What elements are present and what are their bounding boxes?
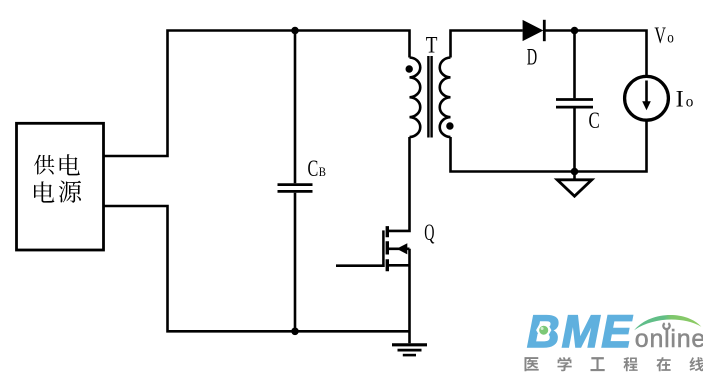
wire: box bottom stub + left vertical lower + bottom rail [104,206,410,331]
wire: secondary top to diode anode [451,31,523,58]
transformer primary polarity dot [406,65,413,72]
svg-text:I: I [676,87,684,112]
MOSFET Q channel bars [386,226,389,271]
wire: diode cathode to top-right corner [544,31,646,78]
svg-text:C: C [589,108,600,133]
transformer T primary winding [410,58,421,138]
junction node: C top [571,27,579,35]
box text 源 [59,181,81,203]
capacitor CB plates [278,185,313,192]
logo wrench head on l [663,323,669,329]
diode D cathode bar [543,20,546,41]
current source Io circle [625,76,669,120]
capacitor CB bottom wire [294,193,297,331]
logo text 学 [558,357,572,371]
svg-text:V: V [654,23,666,48]
svg-text:C: C [308,156,319,181]
junction node: CB bottom [291,328,299,336]
power supply box 供电电源 [17,123,104,250]
logo text 程 [624,357,638,371]
box text 电 [60,154,80,175]
logo green ball [539,326,548,335]
signal ground triangle [557,180,592,196]
wire: secondary bottom rail [451,120,647,172]
svg-text:T: T [426,33,438,58]
MOSFET Q body arrow [397,243,408,254]
wire: primary bottom to MOSFET drain [387,137,410,231]
wire: box top stub + left vertical upper + top rail to transformer primary [104,31,410,157]
capacitor C top wire [573,31,576,99]
logo hexagon nut [536,323,551,336]
svg-text:D: D [527,45,537,70]
svg-text:B: B [319,164,326,179]
current source Io arrow shaft [645,81,648,103]
logo text 线 [690,357,703,371]
capacitor C plates [556,100,593,108]
diode D triangle [523,20,544,41]
capacitor C bottom wire [573,108,576,171]
MOSFET Q gate bar [382,230,385,267]
svg-text:Q: Q [424,220,434,245]
capacitor CB top wire [294,31,297,184]
logo text 在 [657,357,671,371]
logo text 医 [525,357,539,371]
svg-text:o: o [667,29,674,46]
box text 电 [34,181,54,202]
earth ground bars [392,343,427,346]
transformer secondary polarity dot [446,122,453,129]
signal ground stem at C [573,172,576,180]
current source Io arrow head [642,101,651,110]
junction node: CB top [291,27,299,35]
svg-text:o: o [686,94,694,111]
box text 供 [34,155,55,175]
transformer T secondary winding [440,58,451,138]
MOSFET Q gate lead wire [336,264,385,267]
transformer T core [428,56,431,138]
MOSFET Q body wire [389,248,410,251]
MOSFET Q source wire [389,264,410,267]
MOSFET Q source vertical + earth stem [408,249,411,343]
junction node: C bottom [571,168,579,176]
logo text 工 [591,357,605,371]
